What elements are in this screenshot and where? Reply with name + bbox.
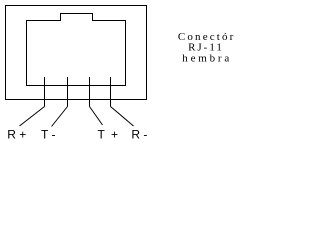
svg-text:R -: R - [131, 128, 147, 142]
svg-text:T -: T - [41, 128, 55, 142]
svg-text:hembra: hembra [182, 53, 232, 65]
svg-text:R +: R + [7, 128, 26, 142]
svg-text:T +: T + [98, 128, 120, 142]
